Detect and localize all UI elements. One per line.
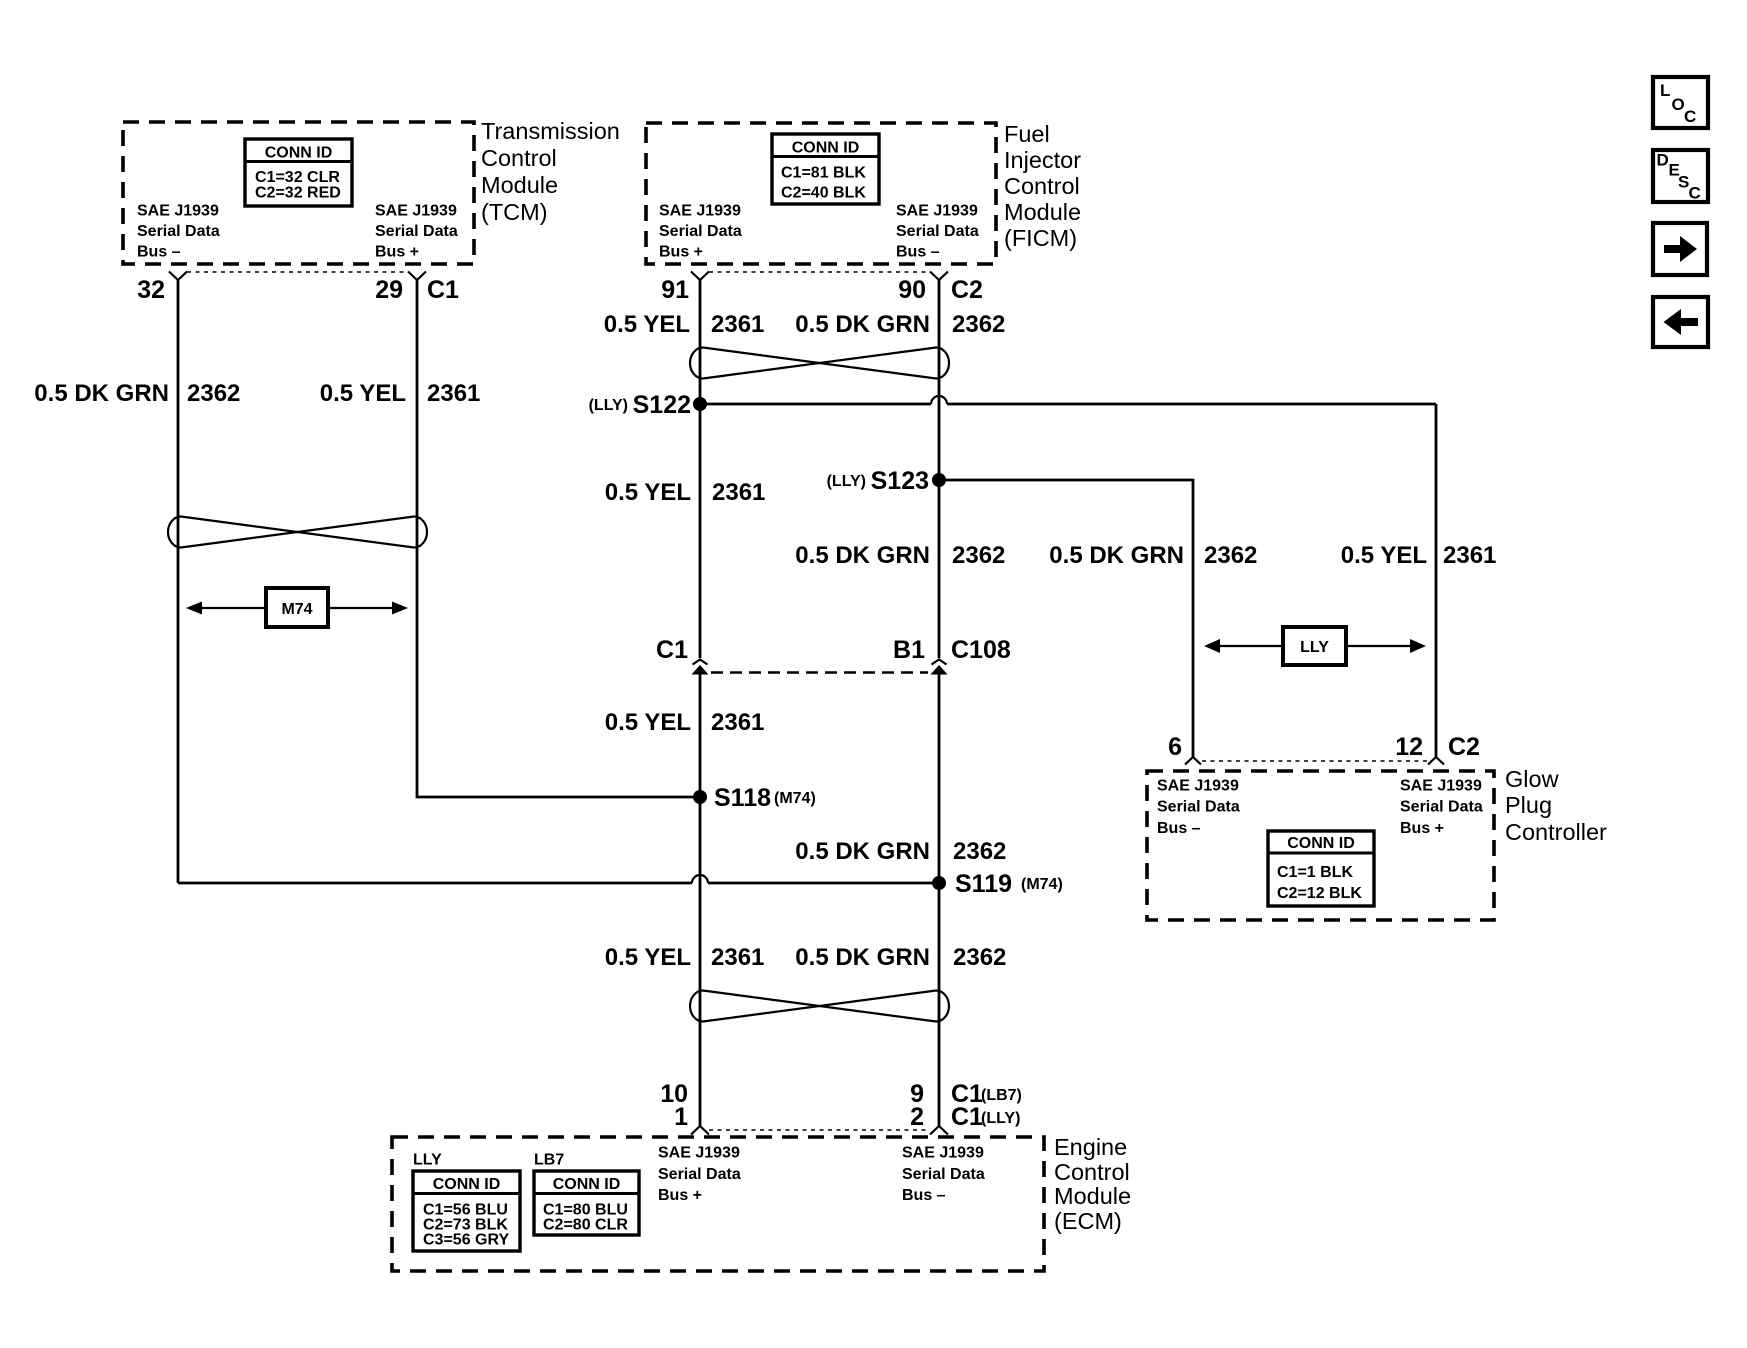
svg-text:Controller: Controller — [1505, 819, 1607, 845]
svg-text:2362: 2362 — [952, 542, 1005, 569]
svg-text:Bus +: Bus + — [1400, 820, 1444, 837]
svg-text:CONN ID: CONN ID — [1287, 835, 1355, 852]
svg-text:Serial Data: Serial Data — [902, 1166, 985, 1183]
svg-text:Bus –: Bus – — [137, 244, 181, 261]
svg-text:Bus –: Bus – — [1157, 820, 1201, 837]
svg-text:(TCM): (TCM) — [481, 199, 548, 225]
svg-text:SAE J1939: SAE J1939 — [1157, 778, 1239, 795]
svg-text:C2=32 RED: C2=32 RED — [255, 185, 341, 202]
svg-text:0.5 DK GRN: 0.5 DK GRN — [1049, 542, 1184, 569]
svg-text:(LLY): (LLY) — [827, 473, 866, 490]
svg-text:2362: 2362 — [952, 311, 1005, 338]
svg-text:S118: S118 — [714, 784, 771, 812]
svg-text:C1: C1 — [951, 1103, 983, 1131]
svg-text:2361: 2361 — [712, 479, 765, 506]
svg-text:S122: S122 — [633, 391, 691, 419]
svg-text:CONN ID: CONN ID — [792, 140, 860, 157]
svg-text:0.5 DK GRN: 0.5 DK GRN — [795, 838, 930, 865]
svg-text:Bus +: Bus + — [659, 244, 703, 261]
svg-text:(M74): (M74) — [1021, 876, 1063, 893]
svg-text:L: L — [1660, 81, 1670, 100]
svg-text:C: C — [1689, 184, 1701, 203]
svg-text:Serial Data: Serial Data — [1157, 799, 1240, 816]
svg-text:SAE J1939: SAE J1939 — [137, 203, 219, 220]
svg-text:0.5 DK GRN: 0.5 DK GRN — [795, 311, 930, 338]
svg-text:LLY: LLY — [413, 1152, 442, 1169]
svg-text:(LB7): (LB7) — [981, 1087, 1022, 1104]
svg-text:D: D — [1657, 151, 1669, 170]
svg-text:CONN ID: CONN ID — [265, 145, 333, 162]
svg-text:2362: 2362 — [953, 838, 1006, 865]
svg-text:12: 12 — [1395, 733, 1423, 761]
svg-text:C1: C1 — [427, 276, 459, 304]
svg-text:2361: 2361 — [711, 311, 764, 338]
svg-text:SAE J1939: SAE J1939 — [896, 203, 978, 220]
svg-text:S123: S123 — [871, 467, 929, 495]
svg-text:S119: S119 — [955, 870, 1012, 898]
svg-text:LB7: LB7 — [534, 1152, 564, 1169]
svg-text:C2: C2 — [951, 276, 983, 304]
svg-text:Engine: Engine — [1054, 1134, 1127, 1160]
svg-text:Module: Module — [1054, 1183, 1131, 1209]
svg-text:SAE J1939: SAE J1939 — [1400, 778, 1482, 795]
svg-text:B1: B1 — [893, 636, 925, 664]
svg-text:SAE J1939: SAE J1939 — [375, 203, 457, 220]
svg-text:(ECM): (ECM) — [1054, 1208, 1122, 1234]
svg-text:2362: 2362 — [953, 944, 1006, 971]
svg-text:Plug: Plug — [1505, 792, 1552, 818]
svg-text:Control: Control — [1054, 1159, 1130, 1185]
svg-text:0.5 YEL: 0.5 YEL — [605, 944, 691, 971]
svg-text:Serial Data: Serial Data — [1400, 799, 1483, 816]
svg-text:Serial Data: Serial Data — [659, 223, 742, 240]
svg-text:0.5 YEL: 0.5 YEL — [320, 380, 406, 407]
svg-text:2361: 2361 — [427, 380, 480, 407]
svg-text:Injector: Injector — [1004, 147, 1081, 173]
svg-text:SAE J1939: SAE J1939 — [658, 1145, 740, 1162]
svg-text:Glow: Glow — [1505, 766, 1560, 792]
svg-text:Module: Module — [1004, 199, 1081, 225]
svg-text:Control: Control — [1004, 173, 1080, 199]
svg-text:2362: 2362 — [1204, 542, 1257, 569]
svg-text:1: 1 — [674, 1103, 688, 1131]
svg-text:Control: Control — [481, 145, 557, 171]
svg-text:C1: C1 — [656, 636, 688, 664]
svg-text:C2=40 BLK: C2=40 BLK — [781, 185, 866, 202]
svg-text:Module: Module — [481, 172, 558, 198]
svg-text:C2=80 CLR: C2=80 CLR — [543, 1217, 628, 1234]
svg-text:M74: M74 — [281, 601, 312, 618]
svg-text:0.5 DK GRN: 0.5 DK GRN — [34, 380, 169, 407]
svg-text:C3=56 GRY: C3=56 GRY — [423, 1232, 509, 1249]
svg-text:Bus –: Bus – — [902, 1187, 946, 1204]
svg-text:Bus +: Bus + — [658, 1187, 702, 1204]
svg-text:SAE J1939: SAE J1939 — [902, 1145, 984, 1162]
svg-text:(M74): (M74) — [774, 790, 816, 807]
svg-text:Serial Data: Serial Data — [137, 223, 220, 240]
svg-text:Fuel: Fuel — [1004, 121, 1050, 147]
svg-text:2: 2 — [910, 1103, 924, 1131]
svg-text:LLY: LLY — [1300, 639, 1329, 656]
svg-text:2361: 2361 — [711, 944, 764, 971]
svg-text:(LLY): (LLY) — [589, 397, 628, 414]
svg-text:2361: 2361 — [1443, 542, 1496, 569]
svg-text:(LLY): (LLY) — [981, 1110, 1020, 1127]
svg-text:Serial Data: Serial Data — [658, 1166, 741, 1183]
svg-text:Serial Data: Serial Data — [896, 223, 979, 240]
svg-text:C: C — [1684, 107, 1696, 126]
svg-text:6: 6 — [1168, 733, 1182, 761]
svg-text:90: 90 — [898, 276, 926, 304]
svg-text:0.5 DK GRN: 0.5 DK GRN — [795, 944, 930, 971]
svg-text:C108: C108 — [951, 636, 1011, 664]
svg-text:C1=81 BLK: C1=81 BLK — [781, 165, 866, 182]
svg-text:32: 32 — [137, 276, 165, 304]
svg-text:29: 29 — [375, 276, 403, 304]
svg-text:CONN ID: CONN ID — [553, 1176, 621, 1193]
svg-text:2361: 2361 — [711, 709, 764, 736]
svg-text:2362: 2362 — [187, 380, 240, 407]
svg-text:SAE J1939: SAE J1939 — [659, 203, 741, 220]
svg-text:O: O — [1672, 95, 1685, 114]
svg-text:0.5 YEL: 0.5 YEL — [604, 311, 690, 338]
svg-text:91: 91 — [661, 276, 689, 304]
svg-text:(FICM): (FICM) — [1004, 225, 1077, 251]
svg-text:Transmission: Transmission — [481, 118, 620, 144]
svg-text:0.5 YEL: 0.5 YEL — [1341, 542, 1427, 569]
svg-text:CONN ID: CONN ID — [433, 1176, 501, 1193]
svg-text:C2: C2 — [1448, 733, 1480, 761]
svg-text:0.5 DK GRN: 0.5 DK GRN — [795, 542, 930, 569]
svg-text:C2=12 BLK: C2=12 BLK — [1277, 885, 1362, 902]
svg-text:Bus +: Bus + — [375, 244, 419, 261]
svg-text:0.5 YEL: 0.5 YEL — [605, 709, 691, 736]
svg-text:C1=32 CLR: C1=32 CLR — [255, 169, 340, 186]
svg-text:Serial Data: Serial Data — [375, 223, 458, 240]
svg-text:Bus –: Bus – — [896, 244, 940, 261]
svg-text:C1=1 BLK: C1=1 BLK — [1277, 864, 1353, 881]
svg-text:0.5 YEL: 0.5 YEL — [605, 479, 691, 506]
